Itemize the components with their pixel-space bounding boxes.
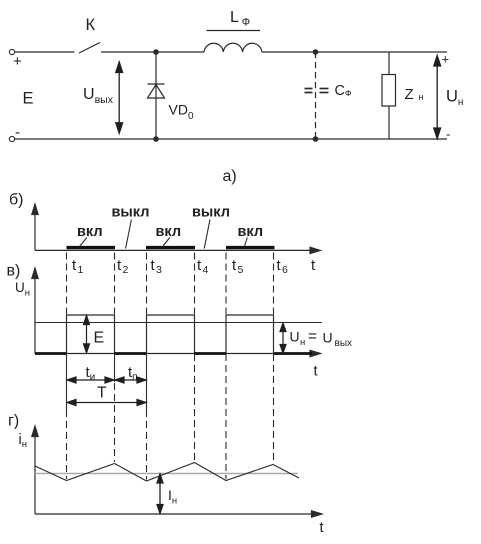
svg-text:н: н bbox=[300, 337, 305, 348]
load Zn rectangle bbox=[382, 75, 396, 107]
node: diode bottom junction bbox=[154, 137, 158, 141]
axis v) horizontal thin bbox=[35, 353, 313, 355]
measurement extension lines t1,t2,t3 bbox=[67, 354, 147, 411]
load Zn branch wire bottom bbox=[388, 106, 390, 139]
arrow Un=Uvyh level bbox=[280, 323, 286, 353]
diode VD0 vertical branch wire bbox=[155, 52, 157, 139]
arrow t_i (pulse width) bbox=[67, 377, 114, 383]
node: capacitor bottom junction bbox=[313, 137, 317, 141]
svg-text:вых: вых bbox=[335, 338, 353, 349]
svg-text:Ф: Ф bbox=[242, 17, 250, 29]
terminal + (top left input terminal) bbox=[9, 49, 14, 54]
grid t6 upper bbox=[273, 253, 275, 316]
svg-text:L: L bbox=[230, 9, 239, 26]
grid t1 lower bbox=[66, 410, 68, 479]
wire top: left terminal to switch bbox=[15, 51, 75, 53]
svg-text:н: н bbox=[419, 92, 424, 102]
grid t6 lower bbox=[273, 354, 275, 463]
axis v) vertical bbox=[32, 268, 321, 357]
svg-text:К: К bbox=[86, 16, 96, 34]
axis g) horizontal bbox=[35, 513, 314, 515]
labels t1..t6 and t on axis b) bbox=[72, 257, 316, 276]
capacitor C1 dashed branch bbox=[315, 52, 317, 139]
arrow Uvyh (voltage across diode) bbox=[116, 62, 123, 133]
leader vykl 1 bbox=[126, 220, 132, 249]
svg-text:E: E bbox=[94, 329, 105, 346]
grid t3 lower bbox=[146, 410, 148, 480]
axis b) vertical bbox=[32, 204, 321, 254]
capacitor C1 plates bbox=[305, 89, 329, 93]
svg-text:U: U bbox=[290, 329, 300, 345]
svg-text:U: U bbox=[323, 330, 333, 346]
svg-text:+: + bbox=[13, 53, 22, 70]
node: capacitor top junction bbox=[313, 50, 317, 54]
grid t4 upper bbox=[194, 253, 196, 316]
grid t1 upper bbox=[66, 253, 68, 316]
svg-text:вкл: вкл bbox=[77, 224, 103, 240]
arrow In (average current) bbox=[157, 474, 163, 514]
leader vykl 2 bbox=[204, 220, 210, 249]
grid t3 upper bbox=[146, 253, 148, 316]
grid t4 lower bbox=[194, 354, 196, 461]
square wave high segments bbox=[67, 315, 274, 354]
svg-text:а): а) bbox=[223, 168, 237, 185]
arrow Un (output voltage) bbox=[434, 56, 441, 139]
diode VD0 cathode bar bbox=[148, 83, 165, 85]
load Zn branch wire top bbox=[388, 52, 390, 75]
arrow E (pulse amplitude) bbox=[84, 316, 90, 353]
svg-text:E: E bbox=[23, 89, 34, 107]
square wave thick low segments on axis bbox=[35, 352, 312, 355]
inductor L1 (3 humps) bbox=[204, 43, 262, 52]
svg-text:г): г) bbox=[8, 413, 19, 430]
arrow T (period) bbox=[67, 400, 146, 406]
average line Un level bbox=[35, 322, 322, 324]
svg-text:б): б) bbox=[9, 192, 24, 209]
diode VD0 symbol bbox=[148, 85, 165, 99]
node: diode top junction bbox=[154, 50, 158, 54]
terminal - (bottom left input terminal) bbox=[9, 136, 14, 141]
switch K lever bbox=[79, 43, 100, 54]
average current line In (gray) bbox=[35, 473, 298, 475]
svg-text:Z: Z bbox=[405, 86, 414, 103]
svg-text:выкл: выкл bbox=[192, 205, 230, 221]
wire bottom bbox=[15, 138, 447, 140]
svg-text:-: - bbox=[446, 127, 450, 142]
svg-text:+: + bbox=[442, 52, 450, 67]
square wave vertical edges bbox=[66, 315, 68, 354]
axis g) vertical bbox=[32, 426, 322, 517]
leader vkl 2 bbox=[163, 238, 170, 247]
svg-text:выкл: выкл bbox=[112, 205, 150, 221]
axis b) horizontal with arrow bbox=[35, 249, 313, 251]
leader vkl 3 bbox=[244, 238, 247, 247]
bars vkl (thick on segments t1-t2, t3-t4, t5-t6) bbox=[67, 246, 275, 249]
svg-text:t: t bbox=[314, 364, 318, 380]
L1 label underline bbox=[207, 30, 261, 32]
grid t5 upper bbox=[225, 253, 227, 316]
svg-text:T: T bbox=[97, 385, 107, 402]
svg-text:в): в) bbox=[7, 263, 21, 280]
grid t5 lower bbox=[225, 354, 227, 479]
svg-text:-: - bbox=[15, 124, 20, 141]
triangular ripple current waveform bbox=[35, 463, 299, 482]
svg-text:t: t bbox=[320, 520, 324, 536]
wire top: inductor to right end bbox=[262, 51, 447, 53]
wire top: switch to inductor bbox=[101, 51, 204, 53]
svg-text:=: = bbox=[308, 328, 317, 345]
svg-text:вкл: вкл bbox=[156, 224, 182, 240]
grid t2 lower bbox=[114, 383, 116, 462]
leader vkl 1 bbox=[80, 238, 87, 247]
grid t2 upper bbox=[114, 253, 116, 316]
svg-text:вкл: вкл bbox=[238, 224, 264, 240]
arrow t_p (pause width) bbox=[115, 377, 146, 383]
